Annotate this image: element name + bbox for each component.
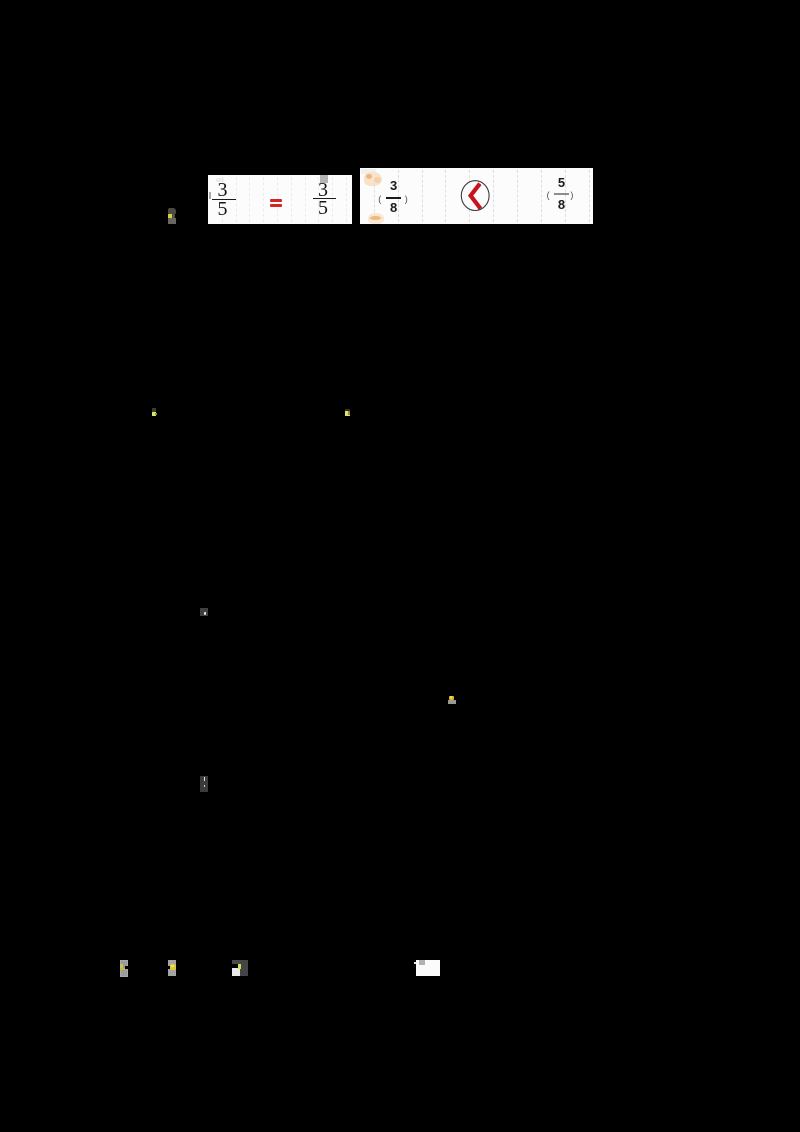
- icon H in bottom row: [168, 960, 176, 976]
- icon I in bottom row: [232, 960, 240, 965]
- fraction box 1 (white panel with 3/5 = 3/5): [208, 175, 352, 224]
- ( 5/8 ) right parenthesis: [570, 191, 573, 199]
- gray square icon D: [200, 608, 208, 616]
- white card J in bottom row: [416, 960, 440, 976]
- red equals sign: [270, 199, 282, 202]
- comparison circle: [459, 179, 492, 212]
- left fraction 3/5 denominator: [212, 199, 234, 219]
- yellow/gray icon E: [449, 696, 454, 700]
- left fraction 3/5 bar: [212, 199, 236, 201]
- right fraction 3/5 numerator: [312, 180, 334, 200]
- tiny icon remnant C: [345, 409, 350, 412]
- 5/8 denominator: [554, 198, 569, 211]
- gray square on top edge of box 1: [320, 175, 328, 183]
- faint gray patch top-left of box 2: [361, 169, 376, 175]
- box 1 dashed grid lines: [222, 177, 223, 222]
- 3/8 denominator: [386, 201, 401, 214]
- fraction box 2 (white panel with (3/8) < (5/8)): [360, 168, 593, 224]
- tiny icon remnant B: [152, 408, 156, 412]
- gray bar icon F: [200, 776, 208, 792]
- red less-than chevron: [471, 184, 481, 209]
- box 2 dashed grid lines: [374, 170, 375, 222]
- 3/8 numerator: [386, 179, 401, 192]
- ( 3/8 ) left parenthesis: [378, 195, 381, 203]
- tiny icon remnant A near box 1 left: [168, 208, 176, 214]
- right fraction 3/5 bar: [313, 198, 336, 200]
- ( 5/8 ) left parenthesis: [547, 191, 550, 199]
- box 1 faint highlight patch: [216, 178, 225, 182]
- 5/8 bar (gray): [554, 193, 569, 195]
- ( 3/8 ) right parenthesis: [405, 195, 408, 203]
- 5/8 numerator: [554, 176, 569, 189]
- 3/8 bar: [386, 197, 401, 199]
- gray tick on left edge of box 1: [209, 192, 211, 199]
- left fraction 3/5 numerator: [212, 180, 234, 200]
- icon G in bottom row: [120, 960, 128, 977]
- right fraction 3/5 denominator: [312, 198, 334, 218]
- orange blob bottom-left of box 2: [368, 213, 384, 224]
- orange blob top-left of box 2: [364, 172, 382, 187]
